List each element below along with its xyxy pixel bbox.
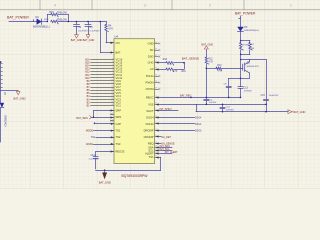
- diode D3 (cut off at edge): [0, 92, 6, 127]
- capacitor C14 2.2uF/16V: [89, 152, 99, 169]
- pin DSG2 wire and label: [146, 122, 159, 126]
- junction at D4 cathode: [47, 21, 49, 23]
- svg-text:TS2: TS2: [116, 135, 121, 139]
- svg-text:4: 4: [54, 4, 56, 8]
- svg-text:C15: C15: [261, 95, 266, 97]
- svg-text:37: 37: [155, 87, 157, 89]
- pin VC12 with net label B12: [85, 70, 122, 74]
- junction R12 rail A: [206, 97, 208, 99]
- svg-text:VSS: VSS: [148, 102, 154, 106]
- junction R12 gate branch: [206, 68, 208, 70]
- svg-text:15: 15: [111, 95, 113, 97]
- junction resistor rejoin: [68, 21, 70, 23]
- pin WAKE with net label WAKE: [86, 142, 121, 146]
- svg-text:11: 11: [111, 83, 113, 85]
- resistor R11 4.7K: [159, 68, 187, 73]
- svg-text:44: 44: [155, 42, 157, 44]
- pin BAT (left): [110, 51, 121, 55]
- svg-text:BAT_ISNS: BAT_ISNS: [76, 117, 88, 120]
- pin VC13 with net label B13: [85, 67, 122, 71]
- power port BAT_GND (left): [13, 90, 25, 100]
- pin LD: [150, 67, 158, 71]
- svg-text:WSD04-4TD: WSD04-4TD: [247, 66, 260, 68]
- svg-text:5: 5: [112, 64, 113, 66]
- svg-text:C13: C13: [244, 88, 249, 90]
- svg-text:1uF/16V: 1uF/16V: [244, 90, 253, 92]
- wire rail C ground: [196, 104, 288, 111]
- svg-text:TS1: TS1: [116, 129, 121, 133]
- junction C5 tap: [87, 21, 89, 23]
- svg-text:GND: GND: [148, 42, 154, 46]
- junction C4 tap: [76, 21, 78, 23]
- svg-text:R15: R15: [49, 11, 54, 14]
- transistor Q2 WSD04-4TD: [241, 60, 260, 79]
- resistor R10 4.7K: [159, 59, 185, 66]
- no-connect cross pin NC1: [110, 113, 114, 116]
- capacitor C12 1uF/16V rail B to rail C: [220, 104, 234, 111]
- wire gate feed vertical: [240, 60, 242, 79]
- svg-text:SHUT: SHUT: [146, 109, 154, 113]
- wire SRP-SRN vertical: [93, 111, 95, 117]
- junction rail A at label: [190, 97, 192, 99]
- svg-text:DCHG: DCHG: [146, 122, 154, 126]
- pin VC15 with net label B15: [85, 61, 122, 65]
- svg-text:ALERT: ALERT: [145, 152, 154, 156]
- svg-text:17: 17: [111, 101, 113, 103]
- pin ALERT with net label INT_ALERT: [145, 152, 159, 156]
- pin VC14 with net label B14: [85, 64, 122, 68]
- svg-text:2.2uF/16V: 2.2uF/16V: [89, 158, 99, 160]
- svg-text:3: 3: [112, 58, 113, 60]
- pin VC2 with net label B2: [87, 100, 122, 104]
- svg-text:4.7K: 4.7K: [168, 64, 173, 66]
- wire drain rail horizontal: [241, 59, 267, 61]
- svg-text:4.7K: 4.7K: [108, 28, 113, 31]
- junction C8 rail A: [228, 97, 230, 99]
- svg-text:18: 18: [111, 104, 113, 106]
- svg-text:10: 10: [111, 79, 113, 81]
- svg-text:4.7K: 4.7K: [208, 62, 213, 64]
- power port BAT_GND under C5: [83, 35, 95, 43]
- svg-text:16: 16: [111, 98, 113, 100]
- svg-text:B340/WSB(LL): B340/WSB(LL): [244, 30, 259, 32]
- svg-text:CAP: CAP: [116, 122, 122, 126]
- svg-text:0R01/2W: 0R01/2W: [57, 18, 68, 21]
- junction rail C: [265, 111, 267, 113]
- resistor R13 4.7K horizontal gate drive: [206, 65, 242, 73]
- junction resistor pair top: [240, 40, 242, 42]
- pin VC8 with net label B8: [87, 82, 122, 86]
- junction source node: [240, 78, 242, 80]
- pin TS2 with net label TS2: [91, 135, 121, 139]
- IC U4 BQ7693003RPW body: [114, 35, 155, 164]
- capacitor C13 1uF/16V: [238, 78, 252, 97]
- svg-text:BAT_GND: BAT_GND: [99, 181, 111, 185]
- junction rail A right end: [240, 97, 242, 99]
- svg-text:0R01/2W: 0R01/2W: [57, 11, 68, 14]
- pin SENSE with net label SA_SENSE: [148, 141, 159, 145]
- junction C15 rail B: [265, 104, 267, 106]
- svg-text:39: 39: [155, 74, 157, 76]
- pin VC4 with net label B4: [87, 94, 122, 98]
- capacitor C11 1uF/16V: [204, 97, 217, 104]
- junction BAT pin tap: [100, 21, 102, 23]
- power port BAT_GND bottom: [99, 170, 111, 184]
- svg-text:DRGMP: DRGMP: [144, 128, 154, 132]
- svg-text:4: 4: [112, 61, 113, 63]
- pin VC5 with net label B5: [87, 91, 122, 95]
- svg-text:BAT_GND: BAT_GND: [13, 96, 25, 100]
- junction drain node: [240, 59, 242, 61]
- junction sense net: [93, 116, 95, 118]
- pin TS1 loop wire to ground rail: [149, 155, 159, 159]
- svg-text:CRGMP: CRGMP: [144, 135, 154, 139]
- svg-text:SRP: SRP: [116, 109, 122, 113]
- pin DSG4 wire and label: [146, 115, 158, 119]
- svg-text:14: 14: [111, 92, 113, 94]
- svg-text:1: 1: [290, 4, 292, 8]
- net label BAT_POWER: [7, 15, 29, 19]
- resistor R15 0R01/2W (top): [47, 11, 68, 17]
- power port BAT_GND (right arrow): [288, 110, 306, 114]
- svg-text:R10: R10: [182, 71, 187, 73]
- svg-text:REG33: REG33: [116, 150, 125, 154]
- wire rail B: [159, 104, 267, 106]
- power port BAT_ISNS: [76, 115, 93, 120]
- net label BAT_SENSE: [182, 56, 199, 60]
- svg-text:DSG4: DSG4: [146, 115, 154, 119]
- svg-text:10uF/25V: 10uF/25V: [78, 30, 88, 32]
- pin DSG0 wire and label: [144, 128, 159, 132]
- svg-text:REGC: REGC: [146, 95, 154, 99]
- svg-text:MODE: MODE: [86, 130, 94, 133]
- svg-text:SRN: SRN: [116, 115, 122, 119]
- net label BAT_REG: [180, 94, 192, 97]
- wire up to parallel resistor branch: [47, 15, 49, 22]
- capacitor C8 branch: [224, 78, 241, 97]
- pin VC11 with net label B11: [86, 73, 123, 77]
- svg-text:B340/WSB(LL): B340/WSB(LL): [33, 26, 50, 29]
- wire to BAT pin: [100, 22, 110, 53]
- pin SDA with net label 3V3_SDA: [148, 145, 158, 149]
- svg-text:8: 8: [112, 73, 113, 75]
- pin ON (left): [110, 41, 120, 45]
- svg-text:R12: R12: [208, 59, 213, 61]
- pin DSG no-connect: [148, 55, 159, 59]
- junction C12 taps: [222, 104, 224, 113]
- pin SCL with net label 3V3_SCL: [148, 148, 158, 152]
- svg-text:TS2: TS2: [91, 136, 96, 139]
- capacitor C15 10uF/16V on drain drop: [261, 60, 279, 112]
- junction resistor pair bottom: [240, 54, 242, 56]
- svg-text:BQ7693003RPW: BQ7693003RPW: [122, 174, 149, 178]
- svg-text:VC1: VC1: [116, 103, 122, 107]
- pin VC6 with net label B6: [87, 88, 122, 92]
- svg-text:TS3: TS3: [116, 142, 121, 146]
- svg-text:R10: R10: [163, 59, 168, 61]
- svg-text:13: 13: [111, 89, 113, 91]
- svg-text:CHG: CHG: [148, 61, 154, 65]
- net label BAT_POWER (right): [235, 12, 256, 16]
- svg-text:DSG: DSG: [148, 55, 154, 59]
- junction C11 rail B: [206, 104, 208, 106]
- junction ground rail: [104, 169, 106, 171]
- svg-text:2: 2: [209, 4, 211, 8]
- pin VC16 with net label B16: [85, 58, 122, 62]
- pin GND no-connect: [148, 42, 159, 46]
- svg-text:DSG4: DSG4: [195, 117, 202, 119]
- svg-text:U4: U4: [114, 35, 118, 39]
- pin NC no-connect: [150, 48, 159, 52]
- svg-text:BAT_GND: BAT_GND: [293, 110, 305, 114]
- pin CAP wire with stub tick: [94, 122, 121, 126]
- svg-text:BAT_REG: BAT_REG: [180, 94, 192, 97]
- no-connect cross pin NC2: [110, 120, 114, 123]
- pin PCHG no-connect: [146, 74, 159, 78]
- svg-text:10uF/16V: 10uF/16V: [269, 95, 279, 97]
- pin MODE with net label MODE: [86, 129, 121, 133]
- pin VC10 with net label B10: [85, 76, 122, 80]
- wire left edge vertical (cut-off cell connector): [0, 61, 18, 142]
- svg-text:0.1uF/50V: 0.1uF/50V: [90, 30, 101, 32]
- diode D4 B340/WSB: [33, 16, 50, 29]
- junction BAT_SENSE: [183, 62, 185, 64]
- pin VC3 with net label B3: [87, 97, 122, 101]
- diode D5 B340/WSB: [238, 27, 260, 41]
- svg-text:REQ: REQ: [148, 141, 154, 145]
- resistor R8 1K/1W (right): [241, 41, 255, 55]
- svg-text:SA_DET: SA_DET: [161, 136, 171, 139]
- pin REGSRC / rail A: [146, 95, 159, 99]
- svg-text:C14: C14: [91, 155, 96, 157]
- svg-text:1uF/16V: 1uF/16V: [226, 109, 234, 111]
- capacitor C4 10uF/25V: [74, 22, 89, 35]
- svg-text:R13: R13: [217, 65, 222, 67]
- svg-text:BAT_GND: BAT_GND: [83, 39, 95, 42]
- svg-text:BAT_GND: BAT_GND: [201, 44, 213, 47]
- svg-text:CPOM: CPOM: [146, 87, 155, 91]
- pin VC1 with net label B1: [87, 103, 122, 107]
- wire joining R10 R11: [184, 63, 186, 69]
- pin REG33 wire: [96, 150, 125, 154]
- wire down from BAT_POWER: [239, 16, 241, 27]
- svg-text:PMON: PMON: [146, 81, 154, 85]
- svg-text:9: 9: [112, 76, 113, 78]
- svg-text:ON: ON: [116, 41, 120, 45]
- pin DET with net label SA_DET: [144, 135, 159, 139]
- pin PMON no-connect: [146, 81, 159, 85]
- svg-text:6: 6: [112, 67, 113, 69]
- pin CHG: [148, 61, 159, 65]
- pin SHUT with net label INT_SHUT: [146, 109, 158, 113]
- part value BQ7693003RPW: [122, 174, 149, 178]
- svg-text:SMBJ24CA: SMBJ24CA: [3, 115, 6, 127]
- svg-text:4.7K: 4.7K: [217, 71, 222, 73]
- wire pair to drain node: [240, 54, 242, 59]
- svg-text:12: 12: [111, 86, 113, 88]
- svg-text:BAT: BAT: [116, 51, 121, 55]
- capacitor C5 0.1uF/50V: [85, 22, 100, 35]
- svg-text:INT_ALERT: INT_ALERT: [165, 151, 178, 154]
- svg-text:DSG0: DSG0: [195, 130, 202, 132]
- resistor R4 4.7K to ON pin: [105, 22, 114, 43]
- svg-text:43: 43: [155, 48, 157, 50]
- pin SRP wire: [93, 109, 121, 113]
- svg-text:3: 3: [144, 4, 146, 8]
- pin direction arrowheads: [111, 51, 159, 158]
- svg-text:TS1: TS1: [149, 155, 154, 159]
- wire rail A: [159, 97, 241, 99]
- svg-text:1uF/16V: 1uF/16V: [209, 102, 217, 104]
- power port BAT_GND up arrow: [201, 44, 213, 51]
- wire main rail after resistors: [58, 21, 106, 23]
- svg-text:7: 7: [112, 70, 113, 72]
- svg-text:PCHG: PCHG: [146, 74, 154, 78]
- svg-text:WAKE: WAKE: [86, 143, 93, 146]
- svg-text:BAT_SENSE: BAT_SENSE: [182, 56, 199, 60]
- svg-text:4.7K: 4.7K: [173, 71, 178, 73]
- wire BAT_POWER to D4 anode: [9, 20, 37, 22]
- svg-text:NC: NC: [150, 48, 154, 52]
- pin VC9 with net label B9: [87, 79, 122, 83]
- pin CPOM no-connect: [146, 87, 159, 91]
- power port BAT_GND under C4: [71, 35, 83, 43]
- svg-text:38: 38: [155, 81, 157, 83]
- wire bottom ground rail: [96, 170, 161, 172]
- pin VC7 with net label B7: [87, 85, 122, 89]
- resistor R7 1K/1W (left): [240, 41, 250, 55]
- resistor R12 4.7K vertical: [205, 50, 213, 97]
- svg-text:DSG2: DSG2: [195, 124, 202, 126]
- svg-text:42: 42: [155, 55, 157, 57]
- svg-text:BAT_POWER: BAT_POWER: [7, 15, 29, 19]
- wire branch right side down: [68, 15, 70, 22]
- resistor R16 0R01/2W (bottom): [44, 18, 67, 24]
- pin SRN wire: [93, 115, 121, 119]
- pin VSS / rail B: [148, 102, 158, 106]
- svg-text:BAT_GND: BAT_GND: [71, 39, 83, 42]
- svg-text:LD: LD: [150, 67, 153, 71]
- svg-text:BAT_POWER: BAT_POWER: [235, 12, 256, 16]
